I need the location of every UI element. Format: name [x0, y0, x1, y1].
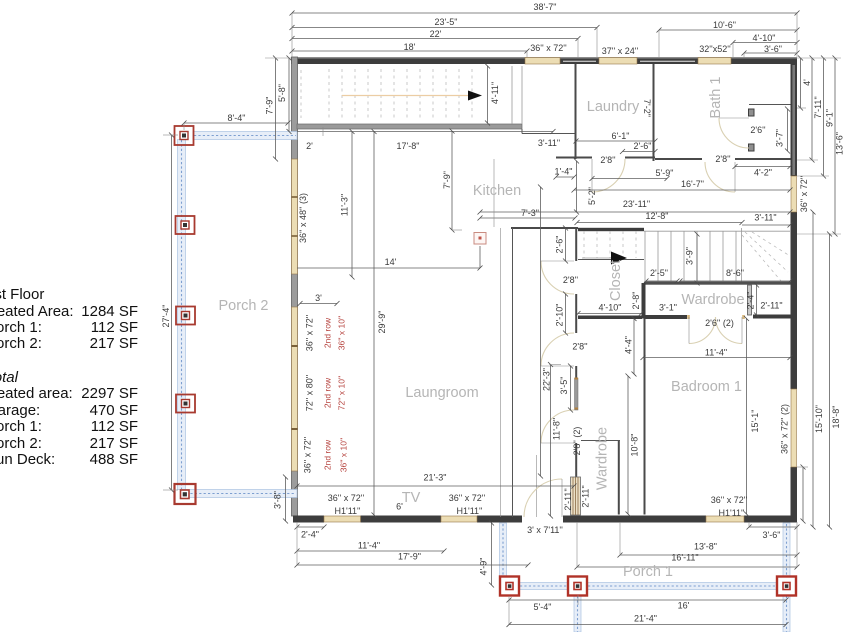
svg-text:2'-6": 2'-6"	[634, 141, 652, 151]
right wall windows 36x72	[791, 176, 797, 212]
svg-text:23'-11": 23'-11"	[623, 199, 650, 209]
wardrobe / badroom walls	[524, 282, 791, 518]
svg-text:2'-8": 2'-8"	[631, 292, 641, 310]
laundry / bath interior walls	[556, 64, 791, 192]
svg-text:15'-1": 15'-1"	[750, 410, 760, 433]
hall / closet walls	[501, 228, 581, 517]
svg-text:H1'11'': H1'11''	[718, 508, 744, 518]
svg-text:36'' x 10'': 36'' x 10''	[339, 437, 349, 472]
porch 1 post 3	[777, 577, 796, 596]
svg-text:36'' x 72'': 36'' x 72''	[530, 43, 567, 53]
closet direction arrow	[582, 257, 612, 259]
svg-text:Porch 2: Porch 2	[219, 298, 269, 314]
svg-text:7'-11": 7'-11"	[813, 96, 823, 118]
dimension lines interior	[297, 66, 790, 516]
stairs2 bottom wall	[644, 282, 791, 285]
svg-text:7'-2": 7'-2"	[642, 99, 652, 117]
top wall	[291, 57, 797, 59]
window 36x72 top	[525, 58, 560, 65]
svg-text:32''x52'': 32''x52''	[699, 44, 731, 54]
svg-text:2'-6": 2'-6"	[555, 236, 565, 254]
left wall window 36x48 (3)	[292, 159, 298, 274]
svg-text:17'-9": 17'-9"	[398, 552, 421, 562]
svg-text:11'-8": 11'-8"	[552, 418, 562, 440]
svg-text:2'6'' (2): 2'6'' (2)	[705, 318, 734, 328]
svg-text:3'-11": 3'-11"	[538, 138, 560, 148]
hatched wall segment	[571, 477, 581, 515]
winder treads	[745, 232, 788, 272]
badroom left wall	[644, 319, 646, 515]
laundry bottom wall	[556, 157, 592, 159]
dimension and room texts	[161, 2, 843, 624]
svg-text:2'-10": 2'-10"	[555, 304, 565, 327]
porch 2 post 2	[176, 216, 195, 234]
svg-text:Laundry: Laundry	[587, 99, 640, 115]
wardrobe2 closet	[618, 440, 620, 515]
svg-text:36'' x 48'' (3): 36'' x 48'' (3)	[298, 193, 308, 243]
svg-text:5'-4": 5'-4"	[534, 602, 552, 612]
svg-text:11'-4": 11'-4"	[358, 541, 380, 551]
svg-text:27'-4": 27'-4"	[161, 305, 171, 328]
svg-text:36'' x 72'': 36'' x 72''	[303, 437, 313, 474]
dimension lines bottom	[297, 522, 797, 625]
svg-text:15'-10": 15'-10"	[814, 405, 824, 433]
svg-text:8'-4": 8'-4"	[228, 113, 246, 123]
svg-text:Closet: Closet	[608, 260, 624, 301]
svg-text:3'-6": 3'-6"	[764, 44, 782, 54]
svg-text:36'' x 72'': 36'' x 72''	[449, 493, 486, 503]
bottom door arc 3x711	[524, 479, 562, 517]
svg-text:21'-3": 21'-3"	[424, 473, 447, 483]
svg-text:29'-9": 29'-9"	[377, 311, 387, 334]
svg-text:22': 22'	[430, 29, 442, 39]
dimension lines right	[797, 58, 841, 527]
left wall windows 36x72 / 72x80 / 36x72	[292, 307, 298, 471]
svg-text:14': 14'	[385, 257, 397, 267]
svg-text:5'-8": 5'-8"	[277, 84, 287, 102]
svg-text:36'' x 10'': 36'' x 10''	[337, 315, 347, 350]
svg-text:2'8'': 2'8''	[715, 154, 730, 164]
laundry left wall	[575, 64, 577, 159]
svg-text:36'' x 72'': 36'' x 72''	[799, 176, 809, 213]
svg-text:Wardrobe: Wardrobe	[595, 427, 611, 490]
svg-text:18': 18'	[404, 42, 416, 52]
dimension lines left	[163, 58, 352, 521]
svg-text:11'-3": 11'-3"	[340, 194, 350, 216]
svg-text:4'-9": 4'-9"	[479, 558, 489, 576]
svg-text:3'-1": 3'-1"	[659, 303, 677, 313]
svg-text:36'' x 72'': 36'' x 72''	[711, 495, 748, 505]
svg-text:3'-8": 3'-8"	[273, 491, 283, 509]
kitchen outlet symbol	[474, 233, 486, 268]
svg-text:5'-2": 5'-2"	[587, 187, 597, 205]
svg-text:4'-10": 4'-10"	[599, 303, 622, 313]
svg-text:7'-3": 7'-3"	[521, 208, 539, 218]
closet bottom wall	[578, 316, 642, 320]
svg-text:23'-5": 23'-5"	[435, 17, 458, 27]
porch 2 post 5	[175, 484, 196, 504]
svg-text:4'-2": 4'-2"	[754, 168, 772, 178]
bath alcove door arc	[719, 117, 749, 119]
svg-text:72'' x 80'': 72'' x 80''	[305, 375, 315, 412]
svg-text:10'-6": 10'-6"	[713, 20, 736, 30]
svg-text:2'-4": 2'-4"	[301, 530, 319, 540]
bottom windows H1'11	[324, 516, 361, 522]
svg-text:3': 3'	[315, 293, 322, 303]
svg-text:Porch 1: Porch 1	[623, 564, 673, 580]
svg-text:2'6'': 2'6''	[750, 125, 765, 135]
svg-text:7'-9": 7'-9"	[442, 171, 452, 189]
porch 2 post 4	[176, 395, 195, 413]
porch 2 post 3	[176, 307, 195, 325]
svg-text:3'-6": 3'-6"	[763, 530, 781, 540]
window 37x24 top	[599, 58, 637, 65]
window 32x52 top	[698, 58, 731, 65]
svg-text:Badroom 1: Badroom 1	[671, 379, 742, 395]
kitchen vertical wall x512.5	[500, 228, 502, 517]
left wall	[292, 57, 298, 516]
porch 2 post 1	[175, 126, 194, 145]
bath door arc	[734, 162, 736, 192]
svg-text:16'-7": 16'-7"	[681, 179, 704, 189]
svg-text:2': 2'	[306, 141, 313, 151]
svg-text:9'-1": 9'-1"	[825, 109, 835, 127]
svg-text:38'-7": 38'-7"	[534, 2, 557, 12]
svg-text:11'-4": 11'-4"	[705, 348, 727, 358]
svg-text:4': 4'	[802, 79, 812, 86]
hall doors arcs	[541, 261, 574, 294]
porch 1 post 1	[500, 577, 519, 596]
svg-text:3'-9": 3'-9"	[685, 247, 695, 265]
dimension lines top	[292, 13, 797, 57]
svg-text:2'-11": 2'-11"	[760, 301, 782, 311]
porch 2 railing top	[178, 132, 298, 498]
svg-text:21'-4": 21'-4"	[634, 614, 657, 624]
svg-text:37'' x 24'': 37'' x 24''	[602, 46, 639, 56]
svg-text:H1'11'': H1'11''	[456, 506, 482, 516]
svg-text:Bath 1: Bath 1	[708, 77, 724, 119]
svg-text:36'' x 72'': 36'' x 72''	[328, 493, 365, 503]
svg-text:2'-5": 2'-5"	[650, 268, 668, 278]
svg-text:17'-8": 17'-8"	[397, 141, 420, 151]
closet top wall	[511, 227, 578, 229]
wardrobe left wall	[642, 283, 646, 319]
svg-text:2'-11": 2'-11"	[581, 485, 591, 507]
svg-text:Laungroom: Laungroom	[405, 385, 478, 401]
svg-text:18'-8": 18'-8"	[831, 406, 841, 429]
bottom wall	[293, 516, 324, 523]
svg-text:3'-7": 3'-7"	[775, 129, 785, 147]
kitchen-hall wall segments x576	[575, 228, 577, 261]
wardrobe inner wall	[748, 285, 752, 315]
wardrobe bottom walls	[646, 315, 688, 319]
bath niche wall	[749, 104, 791, 106]
area summary text block	[0, 286, 138, 303]
bath bottom wall	[655, 158, 702, 160]
right wall	[791, 64, 798, 176]
svg-text:TV: TV	[402, 490, 421, 506]
porch 1 railing	[500, 523, 791, 632]
porch 1 post 2	[568, 577, 587, 596]
svg-text:16'-11": 16'-11"	[671, 553, 698, 563]
svg-text:4'-10": 4'-10"	[753, 33, 776, 43]
svg-text:10'-8": 10'-8"	[630, 434, 640, 457]
svg-text:36'' x 72'': 36'' x 72''	[305, 315, 315, 352]
svg-text:2'8'': 2'8''	[572, 342, 587, 352]
svg-text:2nd row: 2nd row	[323, 439, 333, 470]
svg-text:8'-6": 8'-6"	[726, 268, 744, 278]
svg-text:3'-5": 3'-5"	[559, 377, 569, 395]
svg-text:H1'11'': H1'11''	[334, 506, 360, 516]
svg-text:7'-9": 7'-9"	[265, 97, 275, 115]
stairwell bottom wall	[297, 124, 522, 129]
svg-text:5'-9": 5'-9"	[656, 168, 674, 178]
stairs flight 1	[301, 66, 522, 124]
svg-text:22'-3": 22'-3"	[542, 368, 552, 391]
svg-text:2'8'': 2'8''	[563, 275, 578, 285]
svg-text:2'-11": 2'-11"	[563, 488, 573, 510]
svg-text:6'-1": 6'-1"	[612, 131, 630, 141]
svg-text:2nd row: 2nd row	[323, 317, 333, 348]
svg-text:12'-8": 12'-8"	[646, 211, 669, 221]
svg-text:2'8'': 2'8''	[600, 155, 615, 165]
svg-text:3'-11": 3'-11"	[754, 213, 776, 223]
svg-text:13'-8": 13'-8"	[694, 542, 717, 552]
svg-text:2'-4": 2'-4"	[746, 292, 756, 310]
wardrobe double doors	[689, 317, 716, 344]
exterior walls	[291, 57, 797, 523]
svg-text:36'' x 72'' (2): 36'' x 72'' (2)	[780, 404, 790, 454]
svg-text:1'-4": 1'-4"	[555, 167, 573, 177]
laundry right / bath left wall	[653, 64, 655, 161]
svg-text:2'8'' (2): 2'8'' (2)	[572, 427, 582, 456]
svg-text:13'-6": 13'-6"	[835, 132, 843, 155]
svg-text:Wardrobe: Wardrobe	[681, 292, 744, 308]
svg-text:2nd row: 2nd row	[323, 377, 333, 408]
svg-text:16': 16'	[678, 601, 690, 611]
svg-text:72'' x 10'': 72'' x 10''	[337, 375, 347, 410]
svg-text:Kitchen: Kitchen	[473, 183, 521, 199]
svg-text:3' x 7'11'': 3' x 7'11''	[527, 525, 563, 535]
stairs flight 2	[578, 228, 790, 283]
laundry door arc	[592, 159, 625, 192]
svg-text:4'-11": 4'-11"	[490, 82, 500, 104]
svg-text:4'-4": 4'-4"	[624, 336, 634, 354]
stair1 direction line + arrow	[342, 95, 468, 97]
